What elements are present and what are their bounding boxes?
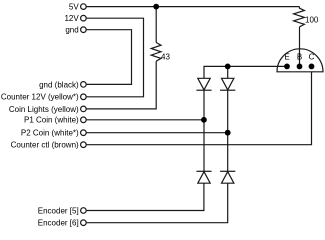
svg-text:gnd: gnd [65, 26, 78, 35]
junction node 5V/R1 [153, 4, 159, 10]
svg-text:gnd (black): gnd (black) [39, 80, 79, 89]
wire P2 Coin row [87, 132, 228, 134]
terminal Encoder [6] [81, 220, 87, 226]
svg-text:Encoder [6]: Encoder [6] [38, 219, 79, 228]
wire Counter ctl to transistor C [87, 72, 312, 145]
label Encoder [6] [38, 219, 79, 228]
wire Encoder [6] row [87, 183, 228, 223]
terminal 5V [81, 4, 87, 10]
label Counter 12V (yellow*) [1, 93, 79, 102]
terminal Encoder [5] [81, 208, 87, 214]
terminal 12V [81, 15, 87, 21]
svg-text:P1 Coin (white): P1 Coin (white) [24, 116, 79, 125]
label Encoder [5] [38, 206, 79, 215]
wire gnd to gnd (black) [87, 30, 132, 85]
wire 5V rail [87, 6, 300, 8]
diode D3 [196, 171, 211, 183]
label pin C [309, 53, 315, 62]
wire resistor R1 to Coin Lights [87, 61, 157, 109]
terminal P1 Coin (white) [81, 117, 87, 123]
wire 12V to Counter 12V [87, 18, 144, 97]
label gnd [65, 26, 78, 35]
label pin B [297, 53, 302, 62]
terminal gnd (black) [81, 82, 87, 88]
junction node P1/D1 [201, 117, 207, 123]
label R1 value 43 [161, 53, 170, 62]
terminal Coin Lights (yellow) [81, 106, 87, 112]
junction node P2/D2 [225, 130, 231, 136]
label P2 Coin (white*) [21, 129, 79, 138]
svg-text:Coin Lights (yellow): Coin Lights (yellow) [9, 105, 79, 114]
label gnd (black) [39, 80, 79, 89]
wire resistor R2 to transistor B [299, 27, 301, 67]
label 12V [64, 14, 79, 23]
diode D1 [196, 78, 211, 90]
svg-text:P2 Coin (white*): P2 Coin (white*) [21, 129, 79, 138]
terminal P2 Coin (white*) [81, 130, 87, 136]
resistor R2 100 [294, 7, 305, 27]
label Counter ctl (brown) [11, 141, 79, 150]
terminal gnd [81, 27, 87, 33]
svg-text:100: 100 [305, 15, 319, 24]
label pin E [284, 53, 289, 62]
svg-text:12V: 12V [64, 14, 79, 23]
wire diode D1 to D3 [203, 90, 205, 171]
svg-text:E: E [284, 53, 289, 62]
wire diode D2 to D4 [227, 90, 229, 171]
label 5V [69, 3, 79, 12]
svg-text:B: B [297, 53, 302, 62]
diode D2 [220, 78, 235, 90]
transistor Q1 pin C [309, 64, 315, 70]
svg-text:Encoder [5]: Encoder [5] [38, 206, 79, 215]
transistor Q1 pin E [284, 64, 290, 70]
svg-text:Counter 12V (yellow*): Counter 12V (yellow*) [1, 93, 79, 102]
wire 5V junction to resistor R1 [155, 7, 157, 43]
transistor Q1 pin B [297, 64, 303, 70]
label R2 value 100 [305, 15, 319, 24]
svg-text:C: C [309, 53, 315, 62]
terminal Counter ctl (brown) [81, 142, 87, 148]
svg-text:43: 43 [161, 53, 170, 62]
diode D4 [220, 171, 235, 183]
resistor R1 43 [151, 43, 161, 62]
junction node E-wire/D2 [225, 64, 231, 70]
transistor Q1 package [277, 49, 323, 72]
wire diode chain 2 top [227, 66, 229, 78]
svg-text:Counter ctl (brown): Counter ctl (brown) [11, 141, 79, 150]
label P1 Coin (white) [24, 116, 79, 125]
terminal Counter 12V (yellow*) [81, 94, 87, 100]
wire P1 Coin row [87, 119, 204, 121]
svg-text:5V: 5V [69, 3, 79, 12]
label Coin Lights (yellow) [9, 105, 79, 114]
wire transistor E to diode chains [204, 66, 287, 78]
wire Encoder [5] row [87, 183, 204, 210]
